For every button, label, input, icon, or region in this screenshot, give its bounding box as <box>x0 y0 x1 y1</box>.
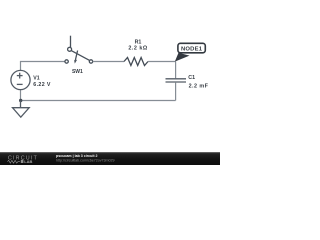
svg-text:V1: V1 <box>33 76 39 82</box>
wire SW1 right terminal to resistor R1 <box>93 61 124 63</box>
svg-text:2.2 kΩ: 2.2 kΩ <box>128 45 147 51</box>
svg-text:LAB: LAB <box>24 159 32 164</box>
wire bottom rail <box>21 100 176 102</box>
CircuitLab logo <box>8 155 39 164</box>
resistor R1 <box>124 58 148 66</box>
switch SW1 <box>65 36 93 64</box>
svg-text:NODE1: NODE1 <box>181 47 203 53</box>
junction dot <box>19 99 22 102</box>
svg-text:SW1: SW1 <box>72 69 83 75</box>
svg-text:2.2 mF: 2.2 mF <box>189 84 209 90</box>
wire capacitor C1 to bottom rail <box>175 83 177 101</box>
ground <box>13 101 30 118</box>
node NODE1 flag <box>175 43 205 61</box>
footer bar <box>0 152 220 165</box>
wire node junction down to capacitor C1 <box>175 62 177 79</box>
wire resistor R1 to node junction <box>148 61 176 63</box>
svg-text:http://circuitlab.com/c6e72ov7: http://circuitlab.com/c6e72ov73m029 <box>56 158 115 162</box>
wire V1 top to SW1 left terminal <box>21 62 65 71</box>
capacitor C1 <box>166 79 187 82</box>
svg-text:6.22 V: 6.22 V <box>33 82 51 88</box>
wire V1 bottom to junction <box>20 89 22 100</box>
svg-text:C1: C1 <box>188 75 195 81</box>
voltage source V1 <box>11 70 30 89</box>
